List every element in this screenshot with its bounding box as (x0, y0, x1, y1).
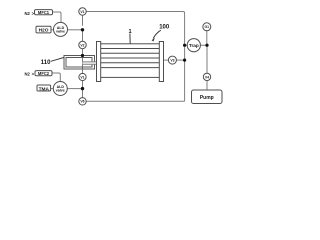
svg-text:>: > (32, 71, 35, 76)
svg-text:MFC1: MFC1 (38, 10, 50, 15)
svg-text:MFC2: MFC2 (38, 71, 50, 76)
svg-text:V1: V1 (80, 10, 84, 14)
svg-text:V3: V3 (170, 59, 174, 63)
svg-text:H2O: H2O (39, 28, 49, 34)
svg-text:V1: V1 (80, 75, 84, 79)
svg-text:V4: V4 (205, 75, 209, 79)
svg-text:1: 1 (128, 29, 131, 35)
svg-text:G1: G1 (205, 25, 210, 29)
svg-text:Pump: Pump (200, 95, 214, 101)
svg-text:V2: V2 (80, 43, 84, 47)
svg-text:Trap: Trap (189, 43, 199, 48)
svg-text:100: 100 (159, 25, 170, 31)
svg-text:110: 110 (41, 60, 51, 66)
svg-text:N2: N2 (25, 71, 31, 76)
svg-text:TMA: TMA (39, 87, 50, 93)
svg-text:valve: valve (56, 89, 65, 93)
svg-text:valve: valve (56, 30, 65, 34)
svg-text:N2: N2 (25, 11, 31, 16)
svg-text:V6: V6 (80, 100, 84, 104)
